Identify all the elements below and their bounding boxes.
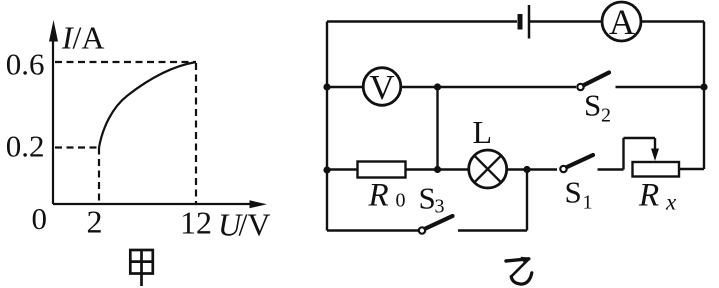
svg-text:1: 1 (583, 192, 593, 214)
svg-text:x: x (665, 190, 677, 215)
svg-text:2: 2 (601, 105, 611, 127)
svg-text:0.2: 0.2 (6, 129, 45, 164)
svg-text:R: R (638, 178, 659, 214)
svg-text:A: A (609, 2, 635, 42)
svg-text:2: 2 (87, 204, 103, 240)
svg-text:/A: /A (73, 20, 105, 56)
svg-text:S: S (419, 181, 436, 216)
svg-text:L: L (473, 114, 493, 150)
svg-text:/V: /V (239, 207, 271, 243)
svg-text:V: V (369, 68, 394, 107)
svg-text:S: S (565, 175, 582, 210)
svg-text:0.6: 0.6 (6, 47, 45, 82)
svg-text:0: 0 (396, 190, 406, 212)
svg-text:S: S (584, 88, 601, 123)
svg-text:0: 0 (32, 201, 48, 236)
svg-text:3: 3 (435, 196, 445, 218)
svg-text:R: R (368, 178, 389, 214)
svg-text:12: 12 (180, 205, 212, 241)
